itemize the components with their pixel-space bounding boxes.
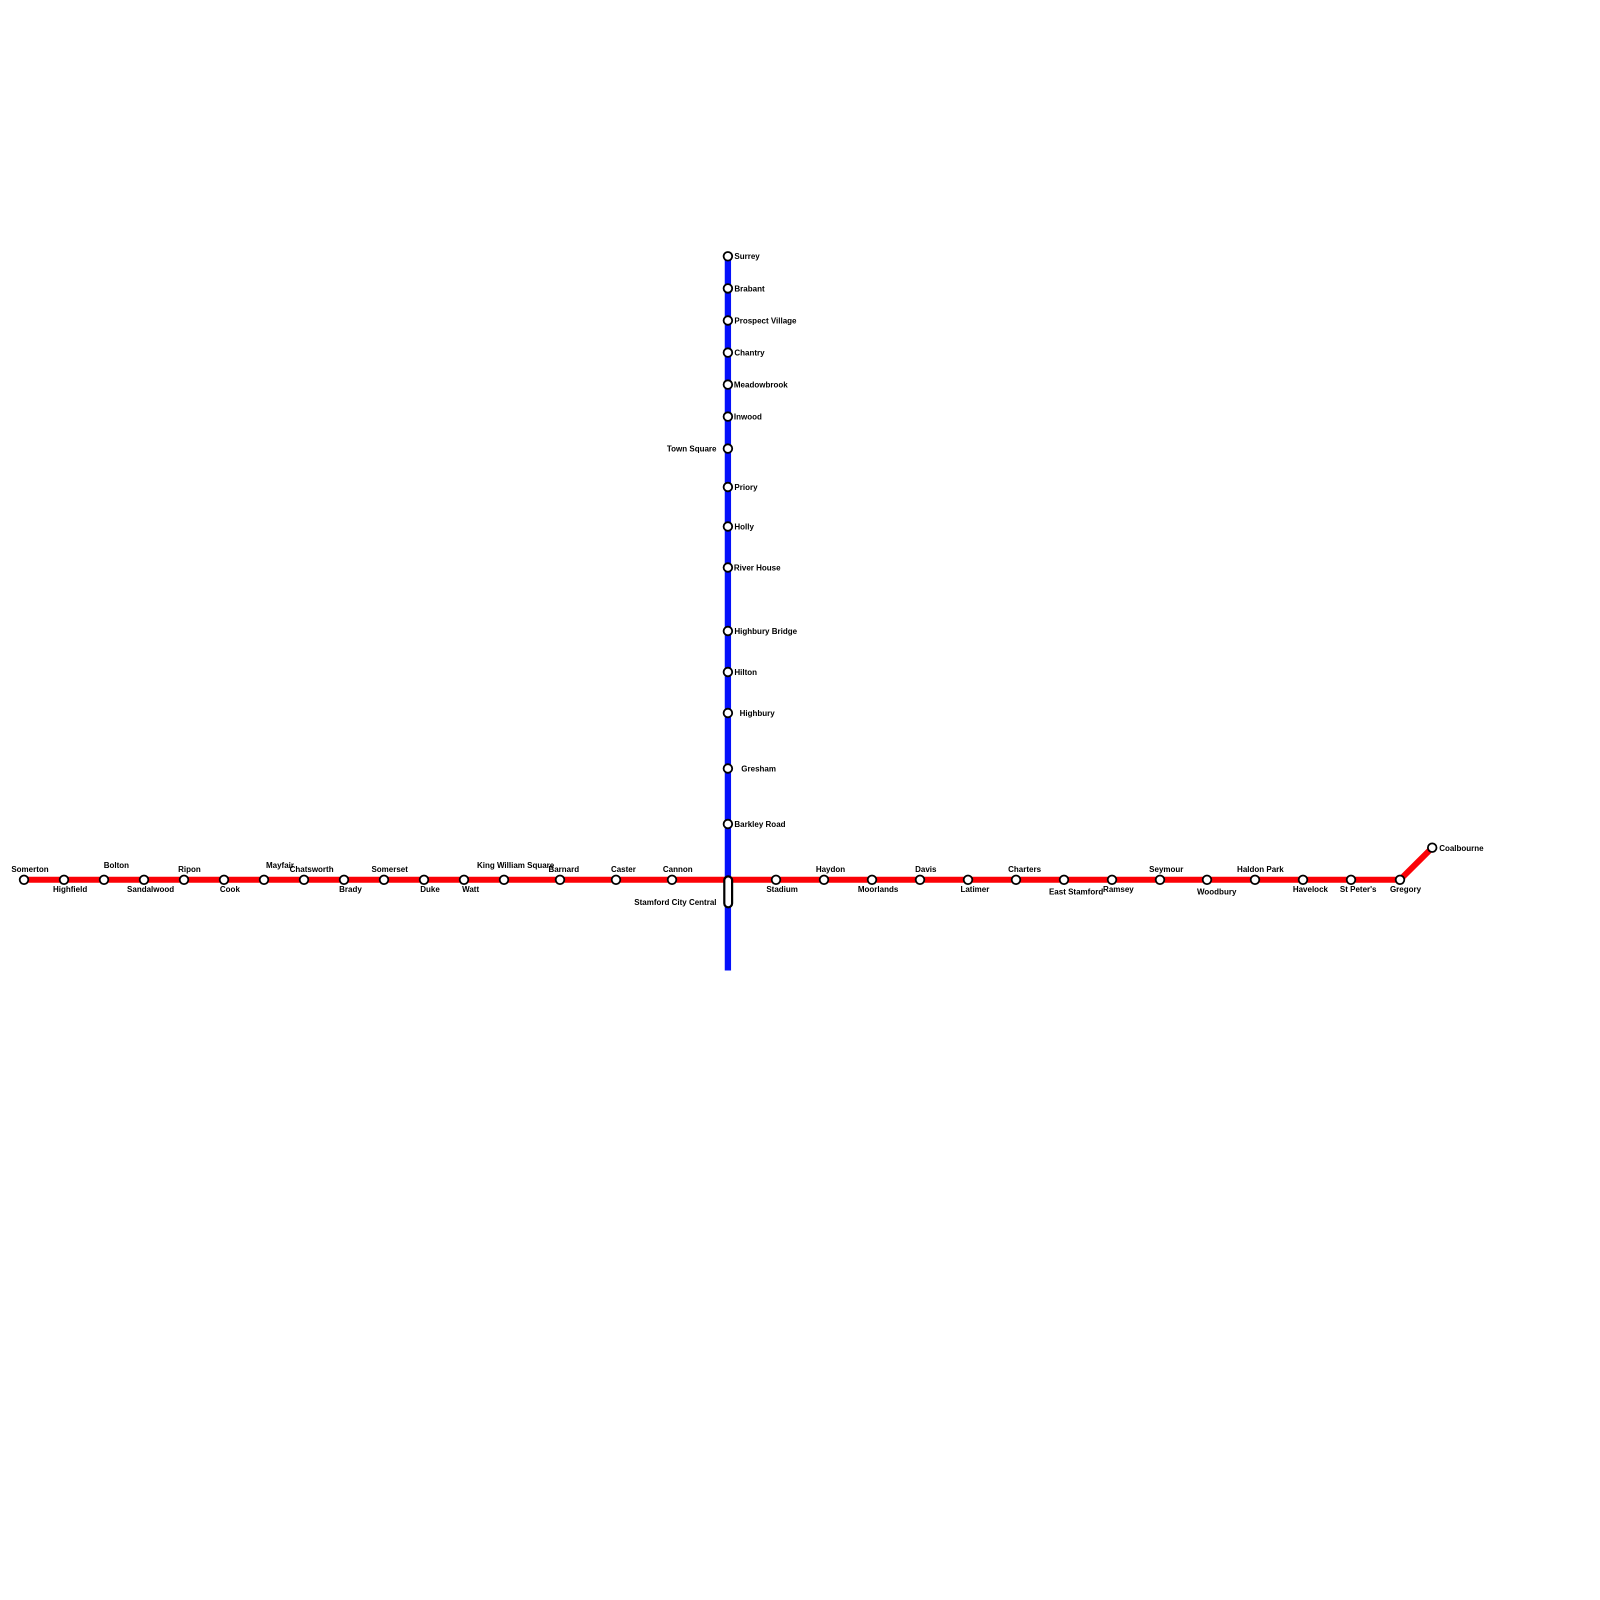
station Davis — [915, 865, 937, 884]
station Coalbourne (NE terminus) — [1428, 843, 1484, 853]
station Somerton — [11, 865, 48, 884]
svg-text:River House: River House — [734, 563, 781, 572]
svg-text:Chatsworth: Chatsworth — [290, 865, 334, 874]
station King William Square — [477, 861, 555, 884]
station Highbury Bridge — [724, 627, 798, 636]
station Gresham — [724, 764, 776, 773]
svg-text:Havelock: Havelock — [1293, 885, 1329, 894]
svg-text:Bolton: Bolton — [104, 861, 129, 870]
svg-text:Moorlands: Moorlands — [858, 885, 899, 894]
svg-text:Meadowbrook: Meadowbrook — [734, 381, 788, 390]
svg-text:Somerset: Somerset — [371, 865, 408, 874]
station Highbury — [724, 709, 776, 718]
station Ramsey — [1103, 876, 1134, 895]
svg-text:Woodbury: Woodbury — [1197, 887, 1237, 896]
station Town Square — [667, 444, 732, 453]
station Haydon — [816, 865, 845, 884]
station Havelock — [1293, 876, 1329, 895]
svg-text:Priory: Priory — [734, 483, 758, 492]
station Moorlands — [858, 876, 899, 895]
svg-text:Cannon: Cannon — [663, 865, 693, 874]
station Latimer — [960, 876, 989, 895]
interchange station Stamford City Central — [634, 876, 732, 907]
station Inwood — [724, 412, 762, 421]
station Priory — [724, 483, 758, 492]
svg-text:Watt: Watt — [462, 885, 479, 894]
station Seymour — [1149, 865, 1183, 884]
station Highfield — [53, 876, 87, 895]
svg-text:Town Square: Town Square — [667, 445, 717, 454]
station Haldon Park — [1237, 865, 1284, 884]
svg-text:Duke: Duke — [420, 885, 440, 894]
svg-text:Gresham: Gresham — [741, 764, 776, 773]
svg-text:Stadium: Stadium — [766, 885, 798, 894]
station Holly — [724, 522, 755, 531]
station Chantry — [724, 348, 766, 357]
svg-text:Brabant: Brabant — [734, 284, 765, 293]
svg-text:King William Square: King William Square — [477, 861, 555, 870]
svg-text:Chantry: Chantry — [734, 349, 765, 358]
station Barnard — [548, 865, 579, 884]
svg-text:Prospect Village: Prospect Village — [734, 316, 797, 325]
station Sandalwood — [127, 876, 174, 895]
station St Peter&#39;s — [1340, 876, 1377, 895]
station Brady — [339, 876, 362, 895]
svg-text:Gregory: Gregory — [1390, 885, 1422, 894]
station Bolton — [100, 861, 129, 884]
svg-text:Haldon Park: Haldon Park — [1237, 865, 1284, 874]
svg-text:Highbury: Highbury — [740, 709, 776, 718]
station Chatsworth — [290, 865, 334, 884]
station Hilton — [724, 668, 758, 677]
station Gregory — [1390, 876, 1422, 895]
svg-text:Davis: Davis — [915, 865, 937, 874]
svg-text:Inwood: Inwood — [734, 413, 762, 422]
station Woodbury — [1197, 876, 1237, 897]
blue line (vertical) — [725, 256, 731, 970]
station Barkley Road — [724, 820, 786, 829]
svg-text:Highfield: Highfield — [53, 885, 87, 894]
station Brabant — [724, 284, 765, 293]
svg-text:Surrey: Surrey — [734, 252, 760, 261]
station Charters — [1008, 865, 1041, 884]
svg-text:Haydon: Haydon — [816, 865, 845, 874]
svg-text:Stamford City Central: Stamford City Central — [634, 898, 716, 907]
svg-text:St Peter's: St Peter's — [1340, 885, 1377, 894]
svg-text:Brady: Brady — [339, 885, 362, 894]
station Prospect Village — [724, 316, 797, 325]
svg-text:Cook: Cook — [220, 885, 241, 894]
svg-text:Hilton: Hilton — [734, 668, 757, 677]
svg-text:Latimer: Latimer — [960, 885, 989, 894]
station River House — [724, 563, 782, 572]
svg-text:Somerton: Somerton — [11, 865, 48, 874]
station Duke — [420, 876, 441, 895]
station Cannon — [663, 865, 693, 884]
station Somerset — [371, 865, 408, 884]
station Ripon — [178, 865, 201, 884]
svg-text:Barkley Road: Barkley Road — [734, 820, 785, 829]
station Meadowbrook — [724, 380, 789, 389]
svg-text:Caster: Caster — [611, 865, 636, 874]
svg-text:Highbury Bridge: Highbury Bridge — [734, 627, 797, 636]
svg-text:Seymour: Seymour — [1149, 865, 1183, 874]
svg-text:Coalbourne: Coalbourne — [1439, 844, 1484, 853]
svg-text:Barnard: Barnard — [548, 865, 579, 874]
station Mayfair — [260, 861, 294, 884]
svg-text:Ramsey: Ramsey — [1103, 885, 1134, 894]
station East Stamford — [1049, 876, 1103, 897]
station Cook — [220, 876, 241, 895]
station Caster — [611, 865, 636, 884]
station Surrey — [724, 252, 761, 261]
svg-text:East Stamford: East Stamford — [1049, 887, 1103, 896]
svg-text:Ripon: Ripon — [178, 865, 201, 874]
svg-text:Sandalwood: Sandalwood — [127, 885, 174, 894]
red line (horizontal with NE diagonal at right end) — [24, 848, 1432, 880]
svg-text:Holly: Holly — [734, 522, 754, 531]
station Watt — [460, 876, 480, 895]
svg-text:Charters: Charters — [1008, 865, 1041, 874]
station Stadium — [766, 876, 798, 895]
